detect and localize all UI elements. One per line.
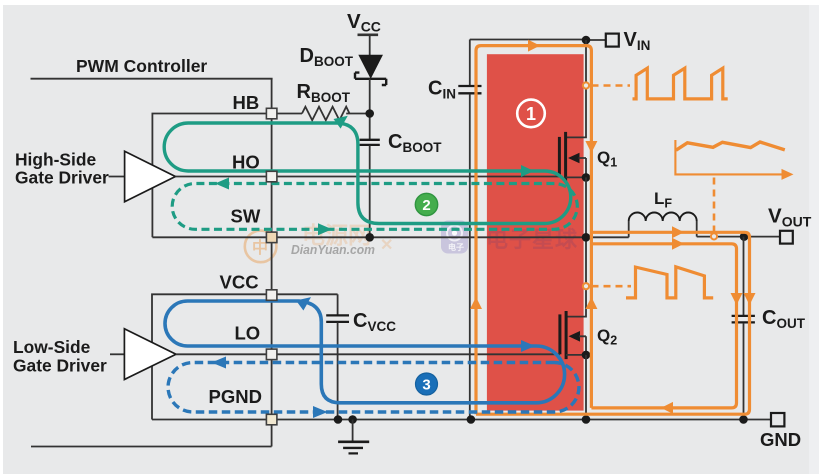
wire ground bus bbox=[152, 419, 771, 421]
wire blue loop 3 solid (low-side gate drive path) bbox=[165, 301, 565, 403]
wire teal loop 2 dashed return bbox=[172, 184, 577, 230]
node SW junction bbox=[582, 233, 591, 242]
svg-text:PWM Controller: PWM Controller bbox=[76, 56, 207, 76]
teal dashed arrow west bbox=[215, 178, 229, 190]
node tap circle on V_OUT wire bbox=[711, 233, 717, 239]
capacitor C_BOOT bbox=[360, 140, 380, 238]
label pin SW bbox=[231, 206, 261, 227]
orange arrow loop1 left up bbox=[470, 297, 482, 309]
label L_F bbox=[654, 189, 672, 211]
wire HO gate line bbox=[175, 176, 559, 178]
svg-text:HB: HB bbox=[233, 92, 260, 113]
node Q2 source bbox=[582, 351, 591, 360]
label V_IN bbox=[624, 29, 651, 53]
node tap circle at SW for waveform bbox=[583, 283, 589, 289]
red hot-loop region (loop 1 area) bbox=[487, 54, 584, 410]
wire Q1 drain chain bbox=[566, 40, 586, 137]
PWM controller top line bbox=[31, 78, 273, 80]
label GND bbox=[760, 429, 801, 450]
orange arrow up through Q2 bbox=[585, 297, 597, 309]
label R_BOOT bbox=[297, 81, 351, 105]
svg-text:DianYuan.com: DianYuan.com bbox=[291, 242, 375, 257]
node loop 1 number badge bbox=[517, 100, 545, 128]
svg-text:2: 2 bbox=[422, 197, 430, 214]
wire Q1 source to SW to Q2 drain bbox=[566, 177, 586, 316]
inductor L_F bbox=[629, 213, 697, 238]
PWM controller bottom line bbox=[31, 446, 272, 448]
terminal V_IN bbox=[606, 34, 619, 47]
label Q1 bbox=[597, 148, 617, 170]
svg-text:LO: LO bbox=[235, 323, 261, 344]
svg-text:VCC: VCC bbox=[220, 272, 259, 293]
svg-text:3: 3 bbox=[422, 377, 430, 394]
teal dashed arrow east bbox=[318, 223, 332, 235]
orange arrow C_OUT left vertical down bbox=[731, 293, 743, 305]
label Q2 bbox=[597, 326, 617, 348]
teal arrow into HB (northwest) bbox=[334, 116, 348, 129]
node C_BOOT to SW junction bbox=[365, 233, 374, 242]
svg-text:Gate Driver: Gate Driver bbox=[15, 168, 109, 188]
label pin HB bbox=[233, 92, 260, 113]
watermark blue characters 电子星球 bbox=[486, 227, 578, 252]
orange arrow loop1 right down at Q1 bbox=[585, 141, 597, 153]
svg-text:HO: HO bbox=[232, 152, 260, 173]
pin pad SW bbox=[266, 232, 277, 243]
label V_OUT bbox=[768, 205, 812, 230]
label V_CC bbox=[347, 10, 381, 34]
node tap circle at V_IN rail for waveform bbox=[583, 82, 589, 88]
svg-text:✕: ✕ bbox=[380, 237, 393, 254]
label High-Side Gate Driver bbox=[15, 150, 109, 188]
label D_BOOT bbox=[300, 45, 354, 69]
high-side driver amplifier U1 bbox=[109, 151, 176, 202]
wire dashed link ripple waveform to V_OUT node bbox=[713, 178, 716, 233]
terminal V_OUT bbox=[780, 231, 793, 244]
node C_IN ground bbox=[467, 415, 476, 424]
watermark app icon bbox=[441, 221, 468, 254]
transistor Q2 bbox=[560, 311, 586, 359]
blue dashed arrow west bbox=[212, 357, 227, 369]
label C_VCC bbox=[353, 310, 396, 334]
svg-text:Gate Driver: Gate Driver bbox=[13, 356, 107, 376]
orange arrow C_OUT right vertical down bbox=[744, 293, 756, 305]
watermark DianYuan orange characters bbox=[302, 222, 393, 254]
waveform Q2 freewheel current pulses bbox=[626, 267, 713, 298]
svg-text:1: 1 bbox=[526, 104, 536, 124]
blue arrow into VCC (northwest) bbox=[296, 297, 311, 310]
node C_VCC ground bbox=[334, 415, 343, 424]
node boot (R_BOOT / D_BOOT / C_BOOT junction) bbox=[365, 109, 374, 118]
node C_OUT ground bbox=[739, 415, 748, 424]
transistor Q1 bbox=[559, 132, 586, 182]
pin pad HB bbox=[266, 108, 277, 119]
pin pad LO bbox=[266, 349, 277, 360]
resistor R_BOOT bbox=[302, 107, 349, 121]
wire L_F to V_OUT bbox=[697, 236, 780, 238]
svg-text:PGND: PGND bbox=[209, 386, 262, 407]
waveform inductor ripple current axis bbox=[675, 140, 793, 180]
wire V_IN top rail bbox=[470, 39, 606, 42]
svg-text:SW: SW bbox=[231, 206, 261, 227]
terminal GND bbox=[771, 413, 784, 426]
label C_IN bbox=[428, 78, 456, 102]
svg-text:电子: 电子 bbox=[448, 242, 464, 252]
teal arrow east on HO leg bbox=[521, 165, 534, 177]
watermark DianYuan logo circle bbox=[245, 231, 277, 263]
wire orange loop 1 hot loop around red region bbox=[476, 46, 591, 415]
node Q2 source ground bbox=[582, 415, 591, 424]
pin pad VCC bbox=[266, 290, 277, 301]
wire orange outer loop upper branch (SW to C_OUT) bbox=[476, 232, 750, 414]
orange arrow SW branch east upper bbox=[672, 226, 684, 238]
node Q1 source bbox=[582, 173, 591, 182]
low-side driver amplifier U2 bbox=[110, 329, 176, 380]
node ground symbol junction bbox=[348, 415, 357, 424]
wire R_BOOT to boot node bbox=[346, 113, 370, 115]
diode D_BOOT (schottky) bbox=[355, 55, 386, 85]
capacitor C_OUT bbox=[732, 237, 755, 420]
wire orange inner freewheel loop (Q2 to C_OUT) bbox=[591, 244, 736, 408]
wire teal loop 2 solid (high-side gate drive path) bbox=[164, 123, 571, 224]
ground bbox=[338, 420, 369, 454]
node loop 2 number badge bbox=[415, 193, 437, 215]
label pin LO bbox=[235, 323, 261, 344]
pin pad HO bbox=[266, 171, 277, 182]
VCC supply terminal bar bbox=[358, 33, 379, 36]
label C_OUT bbox=[762, 307, 806, 331]
wire HB to R_BOOT bbox=[277, 113, 302, 115]
node loop 3 number badge bbox=[416, 373, 438, 395]
low-side driver box bbox=[152, 294, 338, 419]
wire blue loop 3 dashed return bbox=[168, 363, 579, 413]
label C_BOOT bbox=[388, 131, 442, 155]
label PWM Controller bbox=[76, 56, 207, 76]
wire D_BOOT to boot node and C_BOOT bbox=[369, 79, 371, 139]
waveform inductor ripple current trace bbox=[676, 142, 785, 150]
node V_OUT junction bbox=[740, 232, 749, 241]
capacitor C_IN bbox=[458, 40, 481, 420]
node V_IN junction bbox=[582, 36, 591, 45]
high-side driver box bbox=[152, 114, 266, 238]
label pin PGND bbox=[209, 386, 262, 407]
wire LO gate line bbox=[176, 353, 560, 355]
watermark DianYuan.com text bbox=[291, 242, 375, 257]
PWM controller vertical pin rail bbox=[271, 79, 273, 447]
blue arrow east on LO leg bbox=[521, 340, 535, 352]
label pin HO bbox=[232, 152, 260, 173]
orange arrow SW branch east lower bbox=[672, 238, 684, 250]
capacitor C_VCC bbox=[326, 294, 349, 419]
label pin VCC bbox=[220, 272, 259, 293]
orange arrow loop1 top east bbox=[528, 40, 540, 52]
wire Q2 source to ground bus bbox=[585, 355, 587, 420]
svg-text:GND: GND bbox=[760, 429, 801, 450]
orange arrow bottom inner west bbox=[661, 402, 673, 414]
wire SW line bbox=[152, 236, 628, 238]
wire VCC bar to D_BOOT bbox=[369, 35, 371, 56]
pin pad PGND bbox=[266, 414, 277, 425]
waveform input capacitor current pulses bbox=[633, 68, 728, 99]
wire dashed link to Q2 current waveform bbox=[592, 285, 632, 288]
wire dashed link to input current waveform bbox=[592, 84, 631, 87]
label Low-Side Gate Driver bbox=[13, 337, 107, 376]
blue dashed arrow east bbox=[313, 406, 328, 418]
svg-text:High-Side: High-Side bbox=[15, 150, 96, 170]
svg-text:Low-Side: Low-Side bbox=[13, 337, 91, 357]
